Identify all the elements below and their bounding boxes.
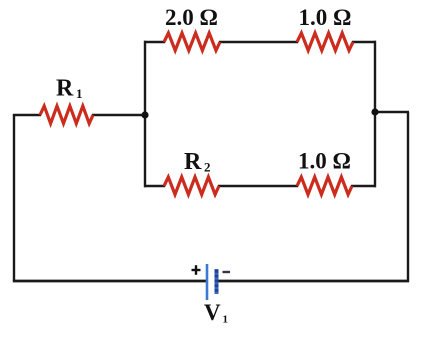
wire R1 to node A: [92, 114, 146, 116]
node A junction dot: [141, 111, 148, 118]
label 1.0 ohm (top right): [299, 5, 352, 30]
svg-text:R: R: [184, 149, 202, 175]
wire bottom branch middle: [218, 185, 298, 187]
label 1.0 ohm (bottom right): [298, 149, 351, 174]
label V1: [204, 300, 228, 326]
svg-text:1: 1: [223, 314, 229, 326]
battery plus sign: [192, 265, 201, 275]
resistor R1: [40, 106, 93, 124]
wire bottom left (to battery +): [13, 280, 206, 283]
resistor 1.0 ohm (top right): [297, 33, 353, 51]
battery minus sign: [223, 271, 231, 273]
svg-text:1.0 Ω: 1.0 Ω: [299, 5, 352, 30]
svg-text:2: 2: [204, 160, 211, 175]
wire bottom branch right: [351, 185, 376, 187]
svg-text:V: V: [204, 300, 221, 325]
label R2: [184, 149, 211, 175]
resistor 1.0 ohm (bottom right): [297, 177, 352, 195]
svg-text:R: R: [56, 76, 74, 102]
wire top branch right: [352, 41, 376, 43]
wire node B stub to right rail: [375, 111, 409, 113]
wire right outer vertical: [407, 112, 409, 282]
wire top branch left: [144, 41, 165, 43]
label R1: [56, 76, 83, 102]
label 2.0 ohm (top left): [165, 5, 218, 30]
resistor R2: [164, 177, 219, 195]
node B junction dot: [371, 108, 378, 115]
battery V1 positive plate (long): [206, 264, 209, 300]
svg-text:1.0 Ω: 1.0 Ω: [298, 149, 351, 174]
wire right inner rail: [374, 41, 376, 187]
svg-text:1: 1: [76, 86, 83, 101]
wire left inner rail: [144, 41, 146, 187]
wire bottom right (from battery -): [217, 280, 409, 283]
wire left outer vertical: [13, 115, 15, 281]
svg-text:2.0 Ω: 2.0 Ω: [165, 5, 218, 30]
battery V1 negative plate (short): [215, 269, 219, 294]
wire bottom branch left: [144, 185, 165, 187]
wire middle left (left rail to R1): [13, 114, 41, 116]
resistor 2.0 ohm (top left): [164, 33, 220, 51]
wire top branch middle: [219, 41, 298, 43]
